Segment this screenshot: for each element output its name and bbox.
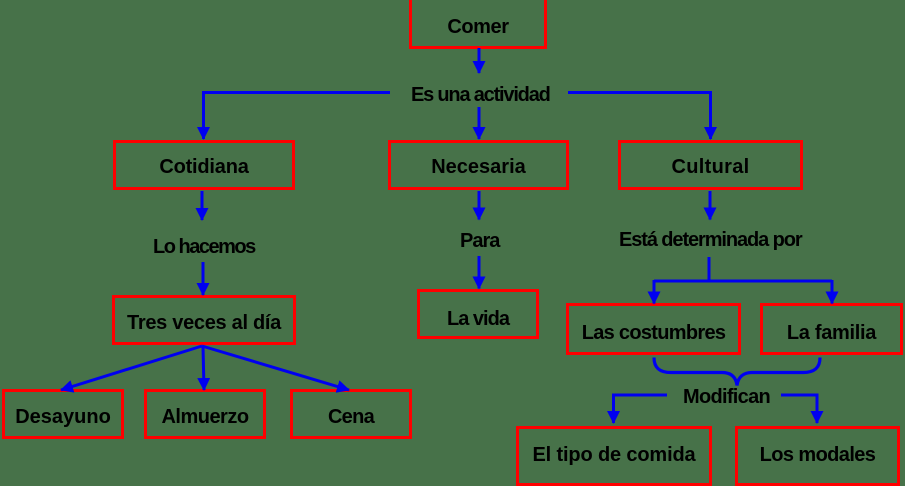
box El tipo de comida (516, 426, 712, 486)
arrow fan center to Almuerzo (203, 346, 204, 390)
box Cotidiana (113, 140, 295, 190)
arrow Cotidiana to Lo hacemos (201, 191, 204, 220)
wire right horizontal with arrow into Cultural (568, 93, 711, 140)
arrow Es una actividad to Necesaria (478, 107, 481, 139)
arrow split into Las costumbres (653, 280, 656, 304)
box Cultural (618, 140, 803, 190)
arrow fan left to Desayuno (61, 346, 202, 390)
arrow Lo hacemos to Tres veces al dia (202, 262, 205, 295)
box La vida (417, 289, 539, 339)
label Esta determinada por (619, 229, 802, 252)
box Desayuno (2, 389, 124, 439)
wire Modifican left with arrow into El tipo de comida (614, 395, 668, 423)
arrow Para to La vida (478, 256, 481, 289)
arrow Cultural to Esta determinada por (709, 191, 712, 220)
arrow Comer to Es una actividad (478, 48, 481, 73)
arrow Necesaria to Para (478, 191, 481, 220)
box La familia (760, 303, 903, 355)
label Lo hacemos (153, 236, 255, 259)
box Las costumbres (566, 303, 741, 355)
label Modifican (683, 386, 770, 409)
box Comer (409, 0, 547, 49)
box Tres veces al dia (112, 295, 296, 345)
wire split from Esta determinada por (654, 257, 709, 281)
label Es una actividad (411, 84, 550, 107)
box Cena (290, 389, 412, 439)
box Los modales (735, 426, 900, 486)
label Para (460, 230, 499, 253)
wire left horizontal with arrow into Cotidiana (204, 93, 391, 140)
arrow split into La familia (831, 280, 834, 304)
curly brace under Las costumbres and La familia (654, 358, 820, 386)
arrow fan right to Cena (202, 346, 349, 390)
box Necesaria (388, 140, 569, 190)
wire Modifican right with arrow into Los modales (781, 395, 817, 423)
box Almuerzo (144, 389, 266, 439)
